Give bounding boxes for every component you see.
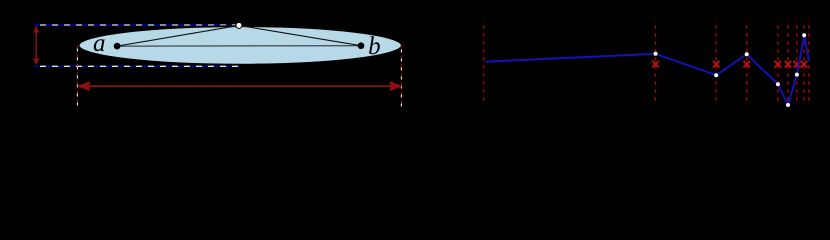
svg-text:a: a [93,30,106,57]
sample line t6 [796,20,798,105]
axis cross mark x1 [652,61,659,68]
distance function polyline [486,35,809,105]
sample line t8 [808,20,810,105]
top height guide dashed line (blue dashes) [34,24,239,26]
sample line t4 [777,20,779,105]
major axis segment a-b [117,45,361,47]
bottom height guide dashed line (white underlay) [34,65,240,67]
bottom height guide dashed line (blue dashes) [34,65,240,67]
focus a dot [114,43,121,50]
segment p-a [117,25,239,46]
top height guide dashed line (white underlay) [34,24,239,26]
sample line t1 [655,20,657,105]
axis cross mark x6 [794,61,801,68]
axis cross mark x2 [713,61,720,68]
left tip vertical dashed guide (white) [76,46,78,108]
axis cross mark x7 [801,61,808,68]
right tip vertical dashed guide (white) [400,47,402,108]
axis cross mark x3 [743,61,750,68]
sample value dot d6 [795,73,799,77]
sample line t3 [746,20,748,105]
axis cross mark x5 [785,61,792,68]
ellipse [79,26,402,64]
sample value dot d5 [786,103,790,107]
width double arrow [77,81,403,91]
sample line t7 [803,20,805,105]
right tip vertical dashed guide (red) [400,47,402,108]
sample line t0 [483,20,485,105]
sample value dot d4 [776,82,780,86]
sample line t5 [787,20,789,105]
segment p-b [239,25,361,45]
sample value dot d3 [745,52,749,56]
boundary point p (white dot) [236,22,242,28]
height double arrow [33,26,40,65]
sample value dot d1 [654,52,658,56]
svg-text:b: b [368,33,381,60]
sample value dot d2 [714,73,718,77]
focus b dot [358,42,365,49]
left tip vertical dashed guide (red) [76,46,78,108]
sample line t2 [715,20,717,105]
sample value dot d7 [802,33,806,37]
axis cross mark x4 [775,61,782,68]
